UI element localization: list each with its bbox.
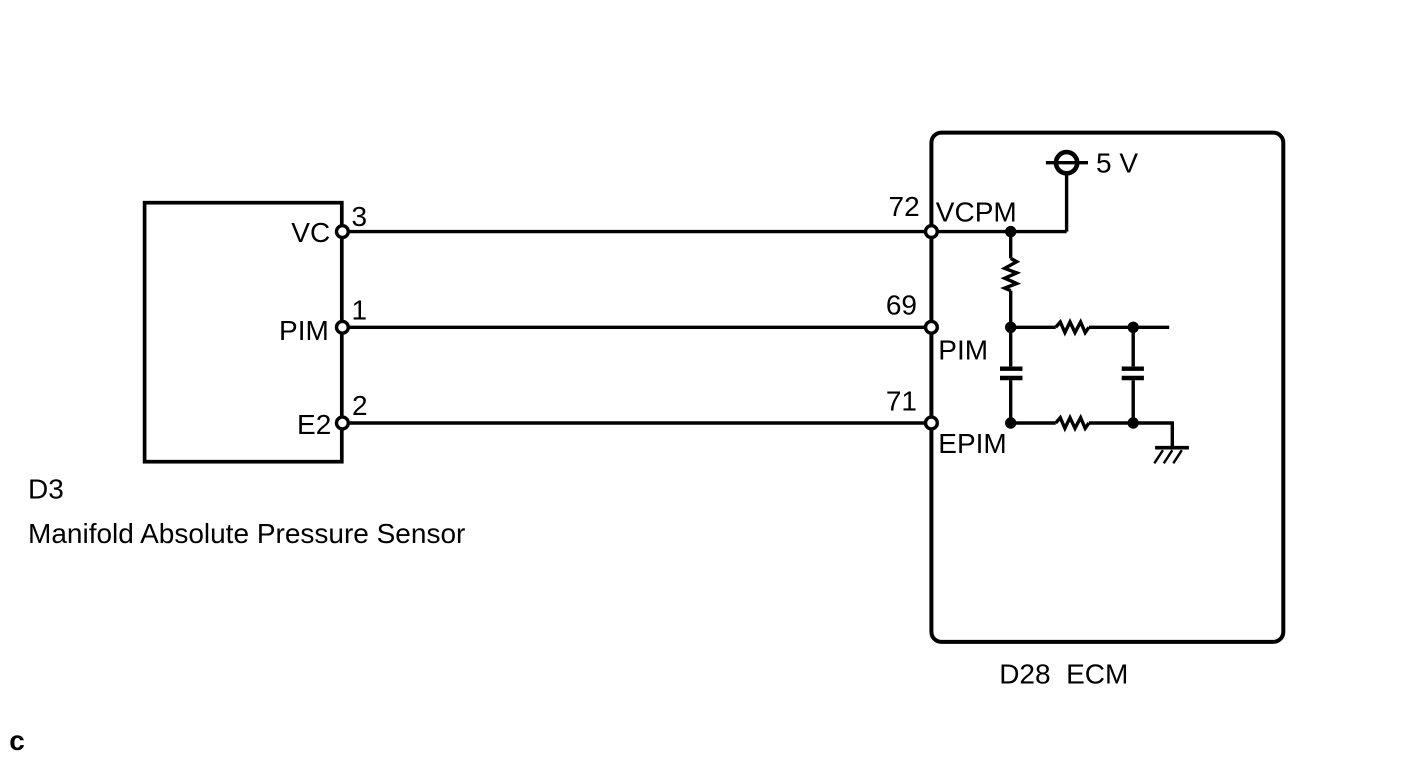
- power supply 5V circle: [1056, 152, 1077, 173]
- sensor box D3: [145, 203, 342, 462]
- svg-text:Manifold Absolute Pressure Sen: Manifold Absolute Pressure Sensor: [28, 518, 465, 549]
- svg-text:3: 3: [352, 201, 368, 232]
- node D junction dot PIM right: [1128, 322, 1139, 333]
- svg-text:72: 72: [889, 191, 920, 222]
- ECM box D28: [931, 133, 1283, 642]
- node A junction dot VCPM: [1005, 226, 1016, 237]
- wire resistor R1 upper lead: [1009, 232, 1012, 259]
- capacitor C2 bottom plate: [1122, 376, 1144, 380]
- wire capacitor C2 upper lead: [1131, 327, 1134, 366]
- wire VC to VCPM: [342, 230, 931, 233]
- wire capacitor C1 lower lead: [1009, 380, 1012, 423]
- svg-text:D3: D3: [28, 474, 64, 505]
- ground hatch 3: [1173, 450, 1182, 463]
- capacitor C1 bottom plate: [1000, 376, 1023, 380]
- pin 72 terminal circle VCPM: [926, 226, 938, 238]
- pin 1 terminal circle PIM: [337, 321, 349, 333]
- wire PIM to PIM: [342, 326, 931, 329]
- wire resistor R2 to node D: [1089, 326, 1169, 329]
- wire EPIM to ground: [1133, 423, 1172, 446]
- wire VCPM internal: [931, 230, 1066, 233]
- wire EPIM to resistor R3: [1011, 421, 1056, 424]
- wire PIM to resistor R2: [1011, 326, 1056, 329]
- wire capacitor C1 upper lead: [1009, 327, 1012, 366]
- ground hatch 1: [1154, 450, 1163, 463]
- svg-text:VCPM: VCPM: [936, 197, 1017, 228]
- svg-text:D28 ECM: D28 ECM: [999, 658, 1128, 689]
- wire E2 to EPIM: [342, 421, 931, 424]
- wire capacitor C2 lower lead: [1131, 380, 1134, 423]
- svg-text:2: 2: [352, 390, 368, 421]
- svg-text:E2: E2: [297, 409, 331, 440]
- pin 2 terminal circle E2: [337, 417, 349, 429]
- ground hatch 2: [1164, 450, 1173, 463]
- pin 71 terminal circle EPIM: [926, 417, 938, 429]
- svg-text:71: 71: [886, 386, 917, 417]
- svg-text:EPIM: EPIM: [938, 428, 1006, 459]
- svg-text:69: 69: [886, 290, 917, 321]
- wire 5V stem: [1065, 163, 1068, 232]
- resistor R2 horizontal: [1056, 322, 1089, 333]
- capacitor C1 top plate: [1000, 367, 1023, 371]
- svg-text:c: c: [9, 725, 25, 756]
- node B junction dot PIM: [1005, 322, 1016, 333]
- power supply 5V bar: [1046, 161, 1088, 164]
- resistor R3 horizontal: [1056, 418, 1089, 429]
- svg-text:1: 1: [352, 295, 368, 326]
- wire resistor R1 lower lead: [1009, 291, 1012, 328]
- svg-text:PIM: PIM: [279, 315, 329, 346]
- ground bar: [1155, 446, 1189, 450]
- node E junction dot EPIM right: [1128, 417, 1139, 428]
- node C junction dot EPIM: [1005, 417, 1016, 428]
- svg-text:PIM: PIM: [938, 334, 988, 365]
- wire resistor R3 to node E: [1089, 421, 1133, 424]
- svg-text:5 V: 5 V: [1096, 147, 1138, 178]
- pin 3 terminal circle VC: [337, 226, 349, 238]
- resistor R1 vertical: [1005, 258, 1017, 290]
- svg-text:VC: VC: [291, 217, 330, 248]
- capacitor C2 top plate: [1122, 367, 1144, 371]
- pin 69 terminal circle PIM: [926, 321, 938, 333]
